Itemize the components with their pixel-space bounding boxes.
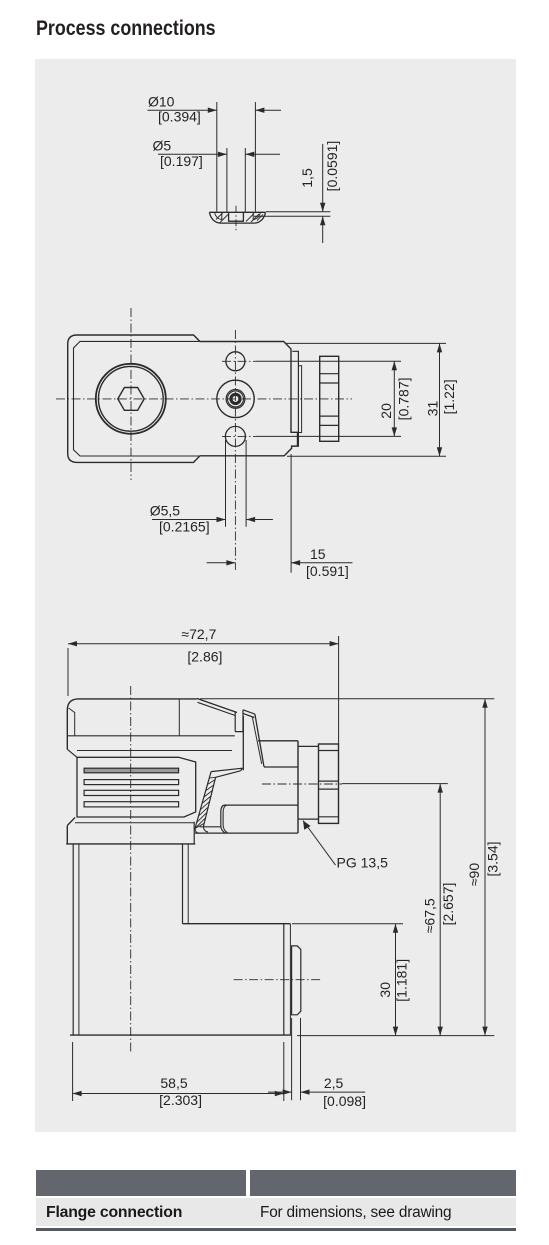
centerline through top pin (222, 360, 256, 362)
strain-relief wedge leg edges (195, 772, 216, 829)
svg-text:58,5: 58,5 (160, 1075, 187, 1091)
flange strip end inner line (223, 805, 227, 833)
svg-text:[0.591]: [0.591] (306, 563, 349, 579)
svg-text:[0.098]: [0.098] (323, 1093, 366, 1109)
body right edge upper inner (187, 844, 189, 924)
vertical centerline through hex screw (130, 308, 132, 480)
label PG 13,5 leader (303, 821, 336, 866)
dimension 15 extension line (290, 454, 292, 573)
svg-text:PG 13,5: PG 13,5 (337, 855, 389, 871)
leg-to-strip line (200, 826, 222, 828)
head cap division vertical (178, 699, 180, 736)
collar chamfer (67, 818, 75, 826)
svg-text:30: 30 (377, 982, 393, 998)
body inner top-surface outline (74, 341, 200, 456)
steep slant inner line (252, 718, 261, 765)
neck seal plate (298, 366, 301, 433)
wedge foot arcs (195, 827, 208, 834)
collar inner line (75, 822, 194, 824)
svg-text:[1.181]: [1.181] (394, 959, 410, 1002)
hex socket (118, 388, 144, 411)
svg-text:31: 31 (425, 401, 441, 417)
svg-text:[0.2165]: [0.2165] (159, 519, 210, 535)
head mid line (77, 750, 232, 752)
lower block right edge outer (283, 924, 285, 1035)
dimension 1,5 line with arrows (322, 144, 324, 243)
dimension 2,5 line with arrows (268, 1091, 365, 1093)
dimension 31 line with arrows (439, 343, 441, 456)
dimension 2,5 extension lines (292, 1018, 301, 1100)
body bottom (70, 1034, 291, 1036)
svg-text:Ø10: Ø10 (148, 94, 175, 110)
svg-text:[0.197]: [0.197] (160, 153, 203, 169)
dimension ≈72,7 extension lines (68, 636, 339, 744)
center pin (231, 394, 240, 403)
collar left edge (66, 826, 68, 844)
dimension 20 extension lines (256, 361, 401, 436)
svg-text:15: 15 (310, 546, 326, 562)
dimension ≈67,5 extension line (342, 783, 448, 785)
dimension ≈67,5 line with arrows (439, 784, 441, 1036)
slot 2 (84, 780, 179, 785)
dimension Ø5,5 extension lines (226, 440, 247, 527)
gland nut (top view) (320, 356, 339, 441)
flange strip rounded left end (221, 805, 226, 833)
port centerline (235, 206, 237, 231)
steep slant to cable boss (255, 714, 264, 767)
svg-text:[2.86]: [2.86] (187, 649, 222, 665)
flange strip top (224, 804, 298, 806)
wedge hatching (195, 777, 216, 828)
flange strip bottom (195, 832, 298, 834)
lower block right edge inner (289, 924, 291, 1035)
svg-text:[2.657]: [2.657] (440, 883, 456, 926)
dimension ≈90 extension lines (200, 699, 494, 1036)
surface reference lines to 1,5 dimension (254, 212, 330, 217)
vertical centerline (130, 686, 132, 1052)
svg-text:[1.22]: [1.22] (441, 379, 457, 414)
svg-text:[0.787]: [0.787] (396, 377, 412, 420)
body outer outline (68, 335, 298, 462)
dimension Ø10 line with arrows (148, 109, 282, 111)
gland nut side view (319, 744, 339, 823)
svg-text:[0.394]: [0.394] (158, 109, 201, 125)
slant band right of latch (243, 710, 255, 718)
step line (183, 923, 291, 925)
port inner shoulder lines (215, 212, 261, 219)
body left edge inner (78, 844, 80, 1035)
head cap top slant inner (198, 702, 236, 715)
gland centerline (262, 783, 342, 785)
cable boss bottom edge (264, 766, 298, 768)
dimension 58,5 line with arrows (73, 1093, 284, 1095)
svg-text:[0.0591]: [0.0591] (324, 141, 340, 192)
svg-text:≈72,7: ≈72,7 (181, 626, 216, 642)
cable latch block (235, 710, 243, 732)
pin circle top (226, 352, 245, 371)
head cap inner-left vertical (69, 708, 75, 736)
head cap bottom line (67, 735, 235, 737)
svg-text:20: 20 (378, 403, 394, 419)
centerline through bottom pin (222, 435, 256, 437)
slot 1 (filled) (84, 768, 179, 773)
flange plate (292, 946, 301, 1015)
port center plug rectangle (229, 212, 244, 221)
port centerline (234, 979, 321, 981)
slot 3 (84, 790, 179, 795)
dimension 58,5 extension lines (73, 1042, 284, 1101)
dimension ≈90 line with arrows (484, 699, 486, 1036)
horizontal centerline (56, 398, 352, 400)
port dome profile (209, 212, 265, 223)
dimension 20 line with arrows (393, 361, 395, 436)
gland nut knurl lines (319, 751, 339, 817)
svg-text:2,5: 2,5 (324, 1075, 344, 1091)
cable boss top edge (258, 740, 298, 742)
port hatching (216, 213, 263, 223)
ribbed block outline (77, 757, 196, 817)
dimension Ø10 extension lines (217, 102, 256, 212)
svg-text:Ø5,5: Ø5,5 (150, 503, 181, 519)
dimension 30 extension line (292, 923, 403, 925)
neck washer plate (292, 351, 298, 446)
svg-text:1,5: 1,5 (299, 168, 315, 188)
svg-text:Ø5: Ø5 (153, 138, 172, 154)
dimension 15 line with arrows (207, 562, 353, 564)
head cap left edge (66, 710, 68, 749)
svg-text:≈67,5: ≈67,5 (422, 898, 438, 933)
dimension Ø5 line with arrows (158, 153, 280, 155)
slot 4 (84, 802, 179, 807)
gland nut knurl lines (320, 374, 339, 426)
head right face (242, 716, 244, 770)
svg-text:[2.303]: [2.303] (159, 1092, 202, 1108)
hex screw outer circle (96, 364, 166, 434)
head right outer face (297, 741, 299, 833)
hex screw inner circle (98, 366, 163, 431)
center port outer circle (217, 380, 254, 417)
head cap rounded corner (67, 699, 77, 710)
head left chamfer to rib block (67, 749, 77, 757)
head cap top edge (78, 698, 197, 700)
svg-text:[3.54]: [3.54] (485, 841, 501, 876)
dimension 31 extension lines (286, 343, 446, 456)
gland neck top (298, 745, 319, 747)
head cap top slant outer (197, 698, 237, 712)
collar right edge (193, 822, 195, 844)
center port rings (226, 390, 245, 409)
wedge top sliver (211, 768, 242, 777)
dimension Ø5,5 line with arrows (152, 519, 273, 521)
dimension Ø5 extension lines (227, 148, 245, 212)
svg-text:≈90: ≈90 (466, 863, 482, 886)
dimension ≈72,7 line with arrows (68, 643, 339, 645)
collar bottom (66, 843, 195, 845)
vertical centerline through pins (234, 330, 236, 570)
gland neck bottom (298, 818, 319, 820)
dimension 30 line with arrows (395, 924, 397, 1036)
pin circle bottom (225, 426, 245, 446)
body left edge outer (72, 844, 74, 1035)
body right edge upper outer (182, 844, 184, 924)
